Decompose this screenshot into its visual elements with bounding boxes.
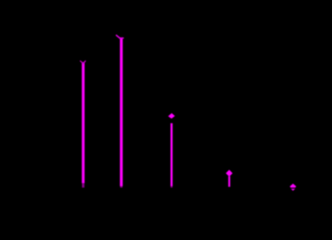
marker 3 (filled diamond)	[168, 113, 175, 119]
marker 4 (filled diamond)	[226, 170, 233, 177]
marker 5 (filled diamond upper part)	[290, 184, 296, 188]
marker 1 (v-cap)	[80, 61, 85, 64]
impulse 4 stem	[228, 176, 230, 187]
impulse 2 stem	[120, 38, 123, 186]
impulse 1 dim tail	[82, 183, 84, 187]
impulse 3 dim tail	[171, 186, 173, 188]
marker 5 lower tip	[291, 189, 295, 191]
impulse 2 dim tail	[120, 186, 122, 188]
impulse 1 stem	[82, 62, 85, 183]
marker 2 (cap with left wing)	[116, 35, 123, 38]
impulse 3 stem	[171, 123, 173, 186]
